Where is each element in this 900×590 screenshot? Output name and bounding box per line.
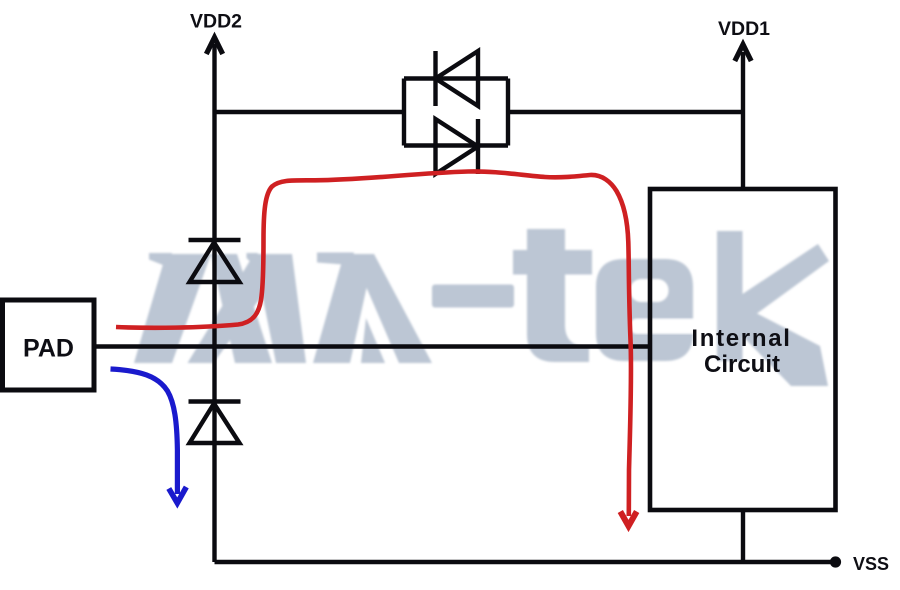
svg-text:Internal: Internal [691, 325, 791, 352]
blue arrow head [169, 487, 187, 503]
logo m peak1 beak [149, 253, 172, 267]
internal circuit box [650, 189, 836, 510]
diode D1 (PAD to VDD2, pointing up) triangle [190, 243, 240, 283]
watermark e aperture [630, 319, 702, 335]
logo k stem [717, 231, 743, 361]
anti-parallel diode box between VDD2 and VDD1 [404, 79, 508, 146]
logo e [596, 259, 693, 361]
logo A right stroke [352, 254, 432, 363]
logo t [527, 229, 589, 362]
wire: bottom VSS rail [215, 560, 836, 564]
svg-text:VDD1: VDD1 [718, 18, 770, 40]
logo m stroke 3 [188, 254, 293, 363]
svg-text:VDD2: VDD2 [190, 10, 242, 32]
diode D4 cathode bar [476, 119, 480, 174]
wire: VDD2 / PAD left column (x=214, from arrow to bottom rail) [212, 44, 216, 562]
watermark e hole [630, 279, 669, 302]
diode D1 cathode bar [189, 238, 241, 242]
diode D2 cathode bar [189, 399, 241, 403]
wire: PAD to internal circuit (main horizontal) [94, 344, 650, 348]
PAD box [3, 300, 95, 390]
svg-text:PAD: PAD [23, 335, 74, 363]
diode D3 cathode bar [433, 51, 437, 106]
svg-text:VSS: VSS [853, 554, 889, 574]
logo hyphen [432, 285, 514, 308]
logo m peak2 beak [247, 253, 259, 265]
logo k upper arm [743, 244, 830, 324]
wire: diode box to VDD1 [508, 110, 743, 114]
wire: top rail VDD2 to diode box [215, 110, 405, 114]
logo A beak [317, 253, 354, 266]
wire: internal circuit to bottom rail [741, 510, 745, 562]
logo k lower arm [743, 306, 829, 386]
diode D2 (VSS to PAD, pointing up) triangle [190, 404, 240, 444]
logo A left stroke [313, 254, 374, 363]
logo m stroke 4 [254, 254, 306, 363]
logo m stroke 1 [134, 254, 211, 363]
wire: VDD1 vertical to internal circuit [741, 52, 745, 189]
VSS node dot [830, 556, 841, 567]
logo m stroke 2 [211, 254, 272, 363]
blue ESD current path [111, 369, 178, 494]
svg-text:Circuit: Circuit [704, 351, 780, 378]
logo A middle triangle [361, 318, 385, 363]
VDD1 arrow head [735, 45, 751, 62]
VDD2 arrow head [206, 38, 222, 55]
red arrow head [620, 512, 636, 527]
diode D3 (top, pointing left) triangle [436, 51, 479, 106]
red ESD current path [116, 171, 631, 516]
diode D4 (bottom, pointing right) triangle [436, 119, 479, 174]
